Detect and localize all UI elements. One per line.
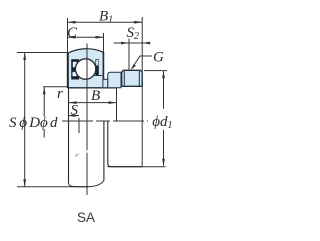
wire: S2 left extension line x=129 — [128, 39, 130, 71]
wire: shaft left edge x=68.5 — [68, 88, 70, 183]
wire: collar silhouette left x=107.5 — [108, 121, 142, 167]
collar step big — [108, 72, 121, 88]
svg-text:S2: S2 — [127, 25, 140, 42]
node S dimension y=115.6 small outward arrows — [69, 115, 80, 117]
svg-text:G: G — [153, 50, 164, 66]
screw chamfer lines — [123, 70, 125, 86]
wire: horizontal chain leader y=121 — [62, 120, 148, 122]
collar step small — [103, 79, 108, 88]
wire: C right extension line x=103.2 — [103, 33, 105, 52]
wire: B right extension line x=116.5 — [116, 88, 118, 121]
outer ring U1 body (blue) — [68, 49, 104, 88]
node phid dimension line x=44.2 with up arrow — [43, 87, 45, 116]
svg-text:ϕd1: ϕd1 — [152, 114, 172, 131]
seal left (black) — [71, 59, 79, 79]
set screw G boss — [122, 70, 143, 86]
bearing bottom line — [68, 87, 117, 89]
node C dimension line y=37.2 — [68, 36, 104, 38]
node phid1 dimension line lower segment with down arrow — [163, 130, 165, 166]
shaft break mark — [75, 153, 79, 156]
svg-text:SA: SA — [77, 210, 95, 225]
outer ring top arc outline — [68, 49, 104, 54]
node B dimension line y=102.6 — [69, 102, 117, 104]
svg-text:B1: B1 — [99, 8, 113, 25]
wire: B1/S2 right extension + collar right face x=142.2 — [141, 17, 143, 167]
bearing left face line — [67, 53, 69, 88]
wire: bottom-left extension line (SphiD bottom, y=186.8) — [17, 186, 88, 188]
wire: phid1 bottom extension line y=166.7 — [108, 166, 166, 168]
svg-text:r: r — [57, 86, 63, 102]
bearing right face line — [102, 52, 104, 88]
node G leader line — [132, 56, 152, 69]
wire: shaft bottom ellipse — [69, 181, 104, 187]
seal right (black) — [95, 59, 98, 75]
ball — [75, 59, 95, 79]
svg-text:S: S — [71, 102, 79, 118]
node SphiD dimension line vertical x=24.7 — [24, 53, 26, 186]
svg-text:SϕDϕd: SϕDϕd — [9, 115, 58, 131]
node B1 dimension line y=22.2 — [68, 21, 143, 23]
node S2 dimension y=43 with outside arrows — [129, 42, 142, 44]
wire: S right extension line x=79 — [78, 118, 80, 133]
wire: top-left extension line (SphiD top, y=52.5) — [17, 52, 68, 54]
wire: shaft right edge x=103.6 — [103, 121, 105, 181]
node centerline x=87 dashed — [86, 44, 88, 196]
svg-text:C: C — [67, 25, 78, 41]
inner ring top boundary right of ball — [93, 75, 102, 77]
svg-text:B: B — [91, 88, 100, 104]
wire: B1 left extension line x=67.5 above bearing — [67, 18, 69, 53]
wire: phid1 top extension line y=70.6 — [144, 70, 167, 72]
node phid1 dimension line x=163.5 upper segment with up arrow — [163, 71, 165, 109]
wire: phid top extension line y=86.8 — [43, 86, 69, 88]
